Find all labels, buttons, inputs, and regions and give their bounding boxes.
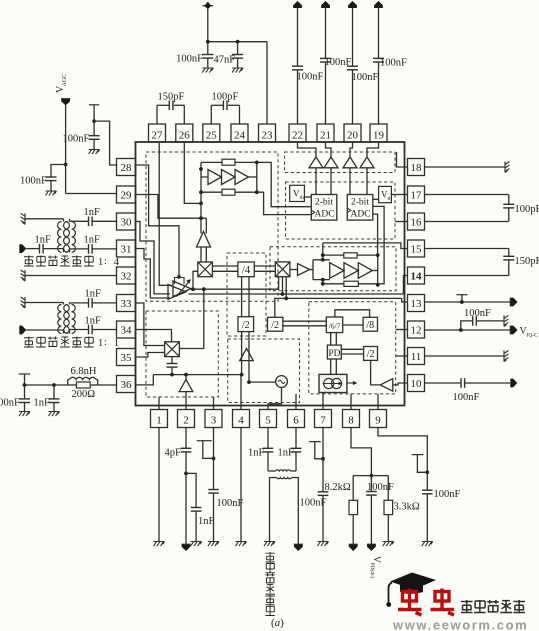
svg-text:100nF: 100nF — [453, 392, 480, 403]
ground — [383, 542, 394, 547]
oscillator circle — [276, 376, 288, 388]
pin 25 (top) — [203, 124, 220, 142]
wire pin19 to T4 — [367, 142, 379, 157]
pin 13 (right) — [408, 295, 425, 312]
capacitor 47nF at VCC — [237, 42, 239, 55]
amplifier A1a — [208, 170, 222, 185]
svg-text:1 4: 1 4 — [98, 257, 120, 268]
wire /4 to /2 rails — [241, 277, 243, 317]
wire pin31 staircase to VGA lower input 2 — [136, 249, 171, 299]
terminal stub at pin36 net — [19, 373, 30, 375]
node dot buffer apex — [184, 373, 188, 377]
limiter buffer T3 (up) — [343, 157, 357, 168]
inductor 6.8nH — [67, 380, 69, 386]
wire pin11 to ground — [425, 355, 505, 357]
node dot VGA gain — [177, 275, 181, 279]
svg-text:ADC: ADC — [350, 210, 370, 220]
signal arrow pin13 — [511, 298, 518, 307]
wire osc rail to oscillator — [249, 381, 276, 383]
pin 3 (bottom) — [205, 410, 222, 428]
wire pin 18 stub — [397, 152, 408, 167]
svg-text:/2: /2 — [242, 320, 250, 331]
pin 4 (bottom) — [233, 410, 250, 428]
limiter buffer T4 (up) — [360, 157, 374, 168]
capacitor 100nF on pin3 — [213, 428, 215, 490]
wire V_AGC to pin 29 — [65, 105, 67, 194]
wire pin9 routing — [378, 428, 427, 473]
svg-text:1nF: 1nF — [35, 235, 52, 246]
svg-text:20: 20 — [347, 130, 359, 142]
mixer M1 — [198, 262, 213, 277]
svg-text:th: th — [388, 196, 393, 202]
terminal stub near pin7 — [309, 441, 321, 443]
ADC1 box 2-bit ADC — [311, 195, 337, 221]
wire chain2 input node — [322, 243, 324, 260]
svg-text:12: 12 — [411, 325, 422, 337]
svg-text::: : — [104, 256, 107, 267]
label balun2 transformer 1:1 — [24, 337, 34, 348]
crystal buffer triangle (up) — [179, 380, 193, 392]
signal arrow pin2 — [182, 544, 191, 551]
wire T3 to ADC2 — [349, 168, 351, 195]
capacitor 1nF branch — [191, 507, 202, 509]
svg-text:100pF: 100pF — [515, 204, 539, 215]
wire T2 to ADC1 — [330, 168, 332, 195]
svg-text:100nF: 100nF — [367, 482, 394, 493]
IF preamp triangle — [298, 264, 310, 276]
mixer M3 — [165, 342, 180, 357]
node dot pin12 — [459, 328, 463, 332]
node dot VCC a — [206, 40, 210, 44]
wire balun2 sec top + cap 1nF to pin33 — [70, 302, 89, 304]
svg-text:27: 27 — [152, 130, 164, 142]
svg-text:150pF: 150pF — [158, 92, 185, 103]
input arrow balun1 — [19, 244, 26, 253]
wire pin8 tee — [353, 475, 388, 477]
IF feedback resistor top — [344, 253, 357, 258]
wire pin 1 stub — [158, 397, 160, 410]
svg-text:28: 28 — [121, 162, 133, 174]
svg-text:100nF: 100nF — [297, 72, 324, 83]
output balun TR3 secondary — [277, 478, 292, 479]
pin 9 (bottom) — [370, 410, 387, 428]
wire pin13 to arrow — [425, 301, 511, 303]
terminal stub near pin3 — [197, 440, 212, 442]
decoupling capacitor 100nF on pin 21 line — [325, 8, 327, 58]
supply arrow above pin 22 — [293, 1, 302, 8]
mixer M2 — [275, 262, 290, 277]
svg-text:31: 31 — [121, 244, 132, 256]
watermark text chongchong (red bugs) — [398, 589, 422, 616]
dashed block: oscillator section — [228, 339, 300, 403]
wire ADC2 feedback down leg 2 — [373, 214, 378, 255]
V_AGC arrow — [61, 98, 70, 100]
limiter buffer T1 (up) — [309, 157, 323, 168]
svg-text:29: 29 — [121, 190, 133, 202]
wire amp1 output node — [256, 162, 258, 192]
svg-text:26: 26 — [179, 130, 191, 142]
amplifier A1b — [222, 170, 236, 185]
wire buffer to /2-ref — [371, 360, 381, 385]
svg-text:/2: /2 — [367, 349, 375, 360]
wire PD to charge pump rails — [330, 359, 332, 374]
wire pin27 to VGA upper input — [159, 142, 171, 285]
node dot ch2 d — [321, 282, 325, 286]
dashed block: divide-by-4 column — [227, 253, 266, 336]
buffer triangle B1 (up) — [197, 232, 211, 248]
svg-text:100nF: 100nF — [217, 498, 244, 509]
wire VGA tap down to mixer3 — [179, 289, 203, 348]
resistor 200ohm — [68, 384, 77, 386]
svg-text:1nF: 1nF — [85, 289, 102, 300]
svg-text:1nF: 1nF — [84, 235, 101, 246]
IF amplifier A2c — [358, 263, 372, 279]
ADC2 box 2-bit ADC — [347, 195, 373, 221]
output balun TR3 primary — [268, 470, 276, 472]
wire charge pump to pin 7 — [322, 393, 324, 410]
wire lower rail up into mixer2 — [282, 277, 284, 294]
wire pin28 staircase to VGA gain input — [136, 165, 180, 277]
svg-text:th: th — [300, 195, 305, 201]
pin 14 (right) — [408, 267, 425, 284]
feedback resistor R_f1 (top) — [222, 159, 235, 165]
svg-text:100nF: 100nF — [352, 72, 379, 83]
wire pin 8 stub — [350, 394, 352, 410]
svg-text:200Ω: 200Ω — [72, 389, 96, 400]
pin 1 (bottom) — [151, 410, 168, 428]
svg-text:47nF: 47nF — [214, 55, 236, 66]
label balun1 transformer 1:4 — [24, 256, 34, 267]
svg-text:13: 13 — [411, 298, 423, 310]
pin 6 (bottom) — [288, 410, 305, 428]
wire pin26 to amp1 node — [184, 142, 201, 203]
coupling capacitor below mixer3 — [171, 357, 173, 364]
node dot pin13 — [460, 300, 464, 304]
wire pin21 to T2 — [326, 142, 332, 157]
svg-text:9: 9 — [375, 415, 381, 427]
svg-text:6: 6 — [293, 415, 299, 427]
watermark text dianzixiazaizhan — [461, 600, 473, 613]
wire oscillator to pin 5 — [268, 387, 282, 409]
pin 11 (right) — [408, 348, 425, 365]
node dot ch2 b — [321, 258, 325, 262]
capacitor 100nF on pin7 — [322, 428, 324, 492]
svg-text:35: 35 — [121, 352, 133, 364]
wire PD to /2-ref rails — [341, 348, 363, 350]
VGA gain port box — [175, 278, 185, 285]
capacitor 100nF on V_AGC (left) — [51, 165, 66, 178]
pin 7 (bottom) — [315, 410, 332, 428]
signal arrow V_PDdc — [367, 544, 376, 551]
svg-text:(a): (a) — [271, 617, 284, 629]
wire pin 4 leg — [240, 375, 242, 410]
node dot pin8 — [370, 474, 374, 478]
VGA gain arrow — [177, 282, 190, 297]
ground below — [46, 191, 57, 196]
wire buffer apex to rail — [185, 375, 187, 380]
node dot pin9 — [425, 470, 429, 474]
wire pin 10 to buffer — [393, 383, 408, 385]
svg-text:7: 7 — [320, 415, 326, 427]
svg-text:100nF: 100nF — [380, 58, 407, 69]
wire amp1 out to ADC1 input 2 — [257, 192, 312, 214]
svg-text:32: 32 — [121, 271, 132, 283]
wire resonator rail — [153, 374, 241, 376]
node dot osc rail a — [240, 373, 244, 377]
supply terminal VCC top — [203, 5, 214, 7]
signal arrow pin10 — [510, 379, 517, 388]
wire pin30 staircase to VGA lower input — [136, 222, 171, 294]
phase detector PD box — [327, 345, 341, 359]
terminal stub pin13 — [456, 294, 467, 296]
wire /4 to mixer2 rails — [254, 265, 275, 267]
capacitor 100pF across pins 25-24 — [210, 105, 212, 124]
pin 19 (top) — [370, 124, 387, 142]
svg-text:17: 17 — [411, 190, 423, 202]
input arrow balun2 — [19, 326, 26, 335]
pin 24 (top) — [231, 124, 248, 142]
wire stub to pin 28 — [94, 121, 116, 165]
ground below 100nF — [202, 68, 213, 73]
pin 27 (top) — [149, 124, 166, 142]
wire pin 12 stub — [396, 329, 408, 331]
svg-text:100nF: 100nF — [434, 489, 461, 500]
svg-text:1nF: 1nF — [278, 448, 295, 459]
dashed block: RF front-end section — [146, 152, 278, 301]
capacitor 100pF bridge — [503, 203, 514, 205]
Vth reference box right — [379, 186, 392, 202]
wire amp1 out to ADC1 input 1 — [257, 162, 312, 206]
wire pin8 routing — [351, 428, 371, 476]
pin 18 (right) — [408, 159, 425, 176]
wire pin20 to T3 — [350, 142, 353, 157]
wire mixer1 to /4 rails — [212, 265, 238, 267]
ground — [191, 542, 202, 547]
pin 34 (left) — [117, 321, 136, 338]
wire mixer1 input branch — [193, 271, 198, 289]
capacitor 1nF to ground — [53, 385, 55, 399]
ground — [264, 542, 275, 547]
wire pin12 branch over 100nF to ground — [461, 321, 473, 330]
divider /6/7 box — [326, 317, 342, 333]
svg-text:1: 1 — [156, 415, 162, 427]
ground — [49, 412, 60, 417]
ground at balun2 primary top — [21, 297, 25, 308]
wire pin34 to mixer3 top — [136, 330, 172, 342]
svg-text:150pF: 150pF — [515, 256, 539, 267]
wire pin35 staircase to mixer3 — [136, 353, 165, 358]
signal arrow pin12 — [511, 326, 518, 335]
Vth reference box left — [290, 185, 305, 201]
terminal stub T1 — [89, 104, 99, 106]
svg-text:21: 21 — [320, 130, 331, 142]
svg-text:34: 34 — [121, 325, 133, 337]
wire pin22 to T1 — [298, 142, 317, 157]
wire pins15/14 bridge — [425, 248, 509, 250]
decoupling capacitor 100nF on pin 19 line — [378, 8, 380, 58]
wire TR3 secondary to arrow — [292, 478, 299, 545]
svg-text:19: 19 — [373, 130, 385, 142]
svg-text:16: 16 — [411, 217, 423, 229]
divider /4 box — [238, 262, 254, 277]
signal arrow 8.2k — [349, 544, 358, 551]
wire buffer to mixer1 — [200, 247, 202, 262]
pin 21 (top) — [317, 124, 334, 142]
wire pin12 to arrow — [425, 329, 511, 331]
svg-text:/4: /4 — [242, 265, 251, 276]
pin 29 (left) — [117, 186, 136, 203]
svg-text:www.eeworm.com: www.eeworm.com — [392, 618, 528, 631]
wire /6/7 top bridge to /8 — [335, 310, 370, 318]
limiter buffer T2 (up) — [324, 157, 338, 168]
node dot VCC b — [236, 40, 240, 44]
wire IF split step — [310, 269, 313, 271]
divider /8 box — [363, 317, 377, 331]
wire pin13 rail left extension to /2 input — [275, 298, 286, 317]
charge pump box — [319, 374, 347, 392]
supply arrow above pin 19 — [374, 1, 383, 8]
svg-text:8.2kΩ: 8.2kΩ — [325, 482, 351, 493]
capacitor 100nF mid — [370, 476, 372, 492]
pin 30 (left) — [117, 213, 136, 230]
pin 15 (right) — [408, 240, 425, 257]
capacitor 150pF bridge — [503, 255, 514, 257]
IF amplifier A2b — [344, 263, 358, 279]
wire pin 3 stub — [213, 397, 215, 410]
svg-text:/8: /8 — [366, 320, 374, 331]
IF feedback resistor bottom — [344, 281, 358, 286]
reference buffer triangle (left) — [380, 379, 393, 392]
node dot LO a — [199, 216, 203, 220]
wire balun1 sec bottom + cap 1nF to pin31 — [70, 248, 89, 250]
wire LO pair down to buffer — [200, 203, 202, 233]
charge pump output arrow — [347, 382, 355, 384]
wire ADC2 to Vth-right — [373, 198, 379, 200]
signal arrow TR3 — [294, 544, 303, 551]
node dot ch2 out a — [376, 253, 380, 257]
capacitor 100nF on pin9 — [426, 472, 428, 490]
capacitor 100nF to ground — [24, 385, 26, 399]
node dot pin3 — [212, 457, 216, 461]
capacitor 100nF on stub — [93, 121, 95, 136]
node dot ch2 c — [321, 278, 325, 282]
node dot VGA to mixer3 tap — [202, 287, 206, 291]
divider /2 box (LO) — [268, 317, 283, 331]
wire VGA output lower long rail to pin14 leg — [189, 293, 404, 295]
decoupling capacitor 100nF on pin 22 line — [297, 8, 299, 66]
svg-text:36: 36 — [121, 379, 133, 391]
wire pin29 staircase to LO node — [136, 195, 207, 219]
ground — [318, 542, 329, 547]
svg-text:IQ-C: IQ-C — [527, 333, 539, 339]
svg-text::: : — [104, 337, 107, 348]
wire amp1 input node — [200, 162, 202, 203]
node dot a — [23, 383, 27, 387]
decoupling capacitor 100nF on pin 20 line — [352, 8, 354, 66]
supply arrow above pin 20 — [348, 1, 357, 8]
capacitor 150pF across pins 27-26 — [156, 105, 158, 124]
wire chain2 output node — [357, 254, 378, 256]
ground right — [504, 315, 508, 326]
svg-text:4pF: 4pF — [165, 448, 182, 459]
wire balun2 input — [26, 329, 63, 331]
node dot mixer3 cap — [170, 373, 174, 377]
ground wire pin 32 — [21, 270, 25, 281]
label V_AGC — [55, 74, 68, 93]
capacitor 1nF on pin5 — [267, 428, 269, 449]
pin 36 (left) — [117, 376, 136, 393]
svg-text:33: 33 — [121, 298, 133, 310]
svg-text:100nF: 100nF — [20, 176, 47, 187]
svg-text:10: 10 — [411, 378, 423, 390]
node dot pin7 — [321, 457, 325, 461]
pin 12 (right) — [408, 321, 425, 338]
IC body outline U1 — [136, 142, 405, 406]
svg-text:100nF: 100nF — [300, 498, 327, 509]
balun transformer TR1 — [63, 219, 65, 222]
ground — [422, 542, 433, 547]
wire pin 9 stub — [377, 394, 379, 410]
svg-text:5: 5 — [265, 415, 271, 427]
capacitor 4pF on pin2 — [185, 428, 187, 449]
wire ADC2 feedback down leg 1 — [373, 206, 384, 283]
wire balun2 primary top — [25, 302, 64, 304]
ground — [208, 542, 219, 547]
node dot osc rail b — [247, 380, 251, 384]
wire /2-LO to /6/7 rails — [283, 320, 327, 322]
wire pin 16 stub — [395, 221, 408, 223]
svg-text:100nF: 100nF — [63, 134, 90, 145]
wire pin10 through 100nF to arrow — [425, 382, 462, 384]
ground at balun1 primary top — [21, 213, 25, 224]
wire /6/7 to /8 — [343, 324, 363, 326]
node dot VGA out branch — [191, 287, 195, 291]
wire pin 11 stub — [396, 355, 408, 357]
dashed block: limiter buffers section — [285, 152, 396, 173]
label V_PDdc (vertical) — [369, 556, 381, 579]
svg-text:/6/7: /6/7 — [329, 322, 341, 331]
ground below 47nF — [232, 68, 243, 73]
divider /2 box (ref) — [364, 347, 378, 361]
svg-text:6.8nH: 6.8nH — [71, 366, 97, 377]
wire buffer to pin 2 — [185, 392, 187, 410]
ground below — [89, 150, 100, 155]
pin 35 (left) — [117, 349, 136, 366]
node dot amp1-in a — [199, 167, 203, 171]
pin 33 (left) — [117, 295, 136, 312]
pin 28 (left) — [117, 159, 136, 176]
wire balun2 sec bottom + cap 1nF to pin34 — [70, 329, 89, 331]
wire pin18 to ground — [425, 166, 506, 168]
divider /2 box (mid) — [238, 317, 254, 332]
dashed block: ADC section — [286, 182, 396, 239]
svg-text:1nF: 1nF — [34, 398, 51, 409]
pin 16 (right) — [408, 213, 425, 230]
svg-text:15: 15 — [411, 244, 423, 256]
svg-text:22: 22 — [292, 130, 303, 142]
wire pin1 to ground — [158, 428, 160, 542]
dashed block: IF amplifier section — [270, 247, 396, 291]
node dot b — [52, 383, 56, 387]
label output balun (vertical) — [266, 552, 275, 562]
wire balun1 primary top — [25, 218, 64, 220]
dashed block: PLL section — [309, 302, 396, 394]
svg-text:100nF: 100nF — [0, 398, 20, 409]
wire chain2 to pin 15 — [323, 243, 408, 249]
feedback resistor R_f2 (bottom) — [222, 189, 235, 195]
pin 20 (top) — [344, 124, 361, 142]
VGA variable-gain amplifier (front triangle) — [173, 281, 191, 297]
